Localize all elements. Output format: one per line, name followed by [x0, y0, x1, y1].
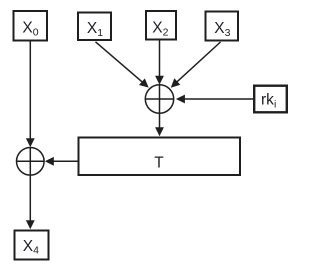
node X2 — [146, 11, 176, 40]
wire X2 to XOR U2 — [155, 41, 164, 85]
wire X0 to XOR U1 — [26, 42, 35, 148]
node X3 — [206, 12, 239, 41]
svg-text:1: 1 — [97, 27, 103, 39]
svg-text:4: 4 — [33, 245, 39, 257]
node X1 — [78, 13, 111, 41]
wire T to XOR U1 — [45, 157, 78, 166]
svg-text:T: T — [154, 155, 164, 172]
XOR junction U1 (left, output addition) — [17, 148, 45, 176]
svg-text:0: 0 — [33, 27, 39, 39]
svg-text:X: X — [23, 238, 34, 255]
node X4 — [15, 231, 49, 260]
wire rk_i to XOR U2 — [176, 95, 254, 104]
svg-text:X: X — [214, 20, 225, 37]
svg-text:2: 2 — [163, 26, 169, 38]
svg-text:X: X — [152, 19, 163, 36]
wire X3 to XOR U2 (diagonal) — [171, 42, 221, 88]
svg-text:X: X — [22, 20, 33, 37]
wire XOR U2 to T — [155, 85, 164, 136]
svg-text:X: X — [87, 20, 98, 37]
wire X1 to XOR U2 (diagonal) — [96, 42, 149, 88]
svg-text:i: i — [274, 99, 276, 111]
node rk_i (round key) — [254, 86, 287, 113]
XOR junction U2 (right, key addition) — [145, 85, 173, 113]
wire XOR U1 to X4 — [26, 148, 35, 230]
svg-text:rk: rk — [261, 91, 274, 108]
node X0 — [14, 11, 48, 41]
box T (transformation) — [79, 138, 241, 176]
svg-text:3: 3 — [225, 27, 231, 39]
